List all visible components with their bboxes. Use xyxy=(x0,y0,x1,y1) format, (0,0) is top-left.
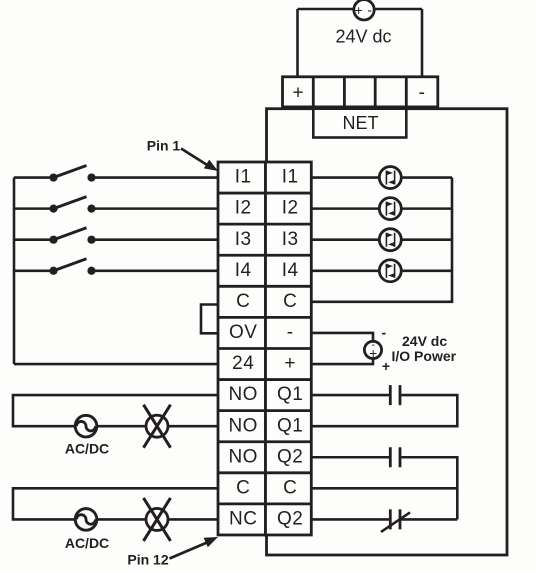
wire rail to 24 terminal xyxy=(14,363,218,366)
sensor load L2 on I2 xyxy=(311,198,452,220)
pin 2 label I2 / I2 xyxy=(235,198,299,219)
svg-text:I2: I2 xyxy=(235,198,252,219)
wire loop A top (NO row 8) xyxy=(13,395,218,426)
lamp E2 (crossed circle) xyxy=(144,498,171,541)
svg-text:C: C xyxy=(236,477,250,498)
wire supply drop right xyxy=(421,9,424,77)
wire C middle return xyxy=(311,487,457,490)
NET connector box xyxy=(313,109,406,138)
wire source to lamp xyxy=(97,425,146,428)
svg-text:C: C xyxy=(283,477,297,498)
pin 7 label 24 / + xyxy=(232,353,296,374)
power terminal block xyxy=(283,77,438,107)
svg-text:I1: I1 xyxy=(282,167,299,188)
sensor load L3 on I3 xyxy=(311,229,452,251)
pin 9 label NO / Q1 xyxy=(228,415,303,436)
pin 8 label NO / Q1 xyxy=(228,384,303,405)
lamp E1 (crossed circle) xyxy=(144,405,171,448)
jumper C to OV xyxy=(201,305,218,334)
sensor load L1 on I1 xyxy=(311,167,452,189)
pin 5 label C / C xyxy=(236,291,297,312)
label Pin 12 with arrow xyxy=(127,537,218,567)
wire supply drop left xyxy=(296,9,299,77)
wire loop B top (C row 11) xyxy=(13,488,218,519)
wire Q2 bottom with NC contact xyxy=(311,518,457,521)
svg-text:I1: I1 xyxy=(235,167,252,188)
switch S4 xyxy=(14,259,218,275)
svg-text:I4: I4 xyxy=(282,260,299,281)
wire lamp to NO terminal xyxy=(168,425,218,428)
switch S2 xyxy=(14,197,218,213)
AC/DC source G2 xyxy=(75,509,97,531)
contact K1 (NO) xyxy=(390,385,400,405)
terminal strip TB1 xyxy=(218,162,311,535)
svg-text:I2: I2 xyxy=(282,198,299,219)
pin 1 label I1 / I1 xyxy=(235,167,299,188)
svg-text:Q2: Q2 xyxy=(277,446,303,467)
pin 10 label NO / Q2 xyxy=(228,446,303,467)
svg-text:-: - xyxy=(381,324,386,340)
wire top supply right xyxy=(374,8,422,11)
PLC device outline xyxy=(267,109,508,555)
svg-text:24V dc: 24V dc xyxy=(402,333,447,349)
wire lamp 2 to NC terminal xyxy=(168,518,218,521)
svg-text:Pin 1: Pin 1 xyxy=(147,138,181,154)
pin 6 label OV / - xyxy=(229,322,294,343)
wire minus to I/O source xyxy=(311,333,373,342)
svg-text:+: + xyxy=(293,83,304,104)
svg-text:I4: I4 xyxy=(235,260,252,281)
svg-text:+: + xyxy=(355,3,363,18)
svg-text:NET: NET xyxy=(343,113,379,133)
pin 3 label I3 / I3 xyxy=(235,229,299,250)
svg-text:Pin 12: Pin 12 xyxy=(127,551,168,567)
contact K3 (NC) xyxy=(381,509,410,531)
svg-text:I3: I3 xyxy=(235,229,252,250)
svg-text:-: - xyxy=(367,3,372,18)
svg-text:I3: I3 xyxy=(282,229,299,250)
wire Q1 top with NO contact xyxy=(311,395,457,426)
svg-text:+: + xyxy=(284,353,296,374)
pin 4 label I4 / I4 xyxy=(235,260,299,281)
AC/DC source G1 xyxy=(75,415,97,437)
switch S1 xyxy=(14,166,218,182)
svg-text:NO: NO xyxy=(228,446,258,467)
switch S3 xyxy=(14,228,218,244)
pin 11 label C / C xyxy=(236,477,297,498)
wire top supply left xyxy=(298,8,355,11)
wire source to lamp 2 xyxy=(97,518,146,521)
svg-text:NC: NC xyxy=(229,509,257,530)
svg-text:I/O Power: I/O Power xyxy=(392,348,457,364)
svg-text:24V dc: 24V dc xyxy=(335,26,391,46)
svg-text:C: C xyxy=(236,291,250,312)
svg-text:Q2: Q2 xyxy=(277,509,303,530)
contact K2 (NO) xyxy=(390,447,400,467)
svg-text:24: 24 xyxy=(232,353,254,374)
svg-text:AC/DC: AC/DC xyxy=(65,535,109,551)
svg-text:Q1: Q1 xyxy=(277,384,303,405)
svg-text:+: + xyxy=(382,358,390,374)
wire sensor common rail xyxy=(311,178,452,302)
svg-text:-: - xyxy=(287,322,294,343)
svg-text:NO: NO xyxy=(228,415,258,436)
svg-text:-: - xyxy=(419,83,425,104)
svg-text:Q1: Q1 xyxy=(277,415,303,436)
sensor load L4 on I4 xyxy=(311,260,452,282)
I/O power source G3 xyxy=(364,339,381,361)
svg-text:C: C xyxy=(283,291,297,312)
label Pin 1 with arrow xyxy=(147,138,218,171)
pin 12 label NC / Q2 xyxy=(229,509,303,530)
wire I/O source to plus xyxy=(311,359,373,365)
svg-text:NO: NO xyxy=(228,384,258,405)
svg-text:OV: OV xyxy=(229,322,257,343)
wire left input rail xyxy=(13,178,16,364)
wire Q2 top with NO contact xyxy=(311,457,457,519)
svg-text:AC/DC: AC/DC xyxy=(65,440,109,456)
battery source BT1 circle xyxy=(354,0,374,20)
